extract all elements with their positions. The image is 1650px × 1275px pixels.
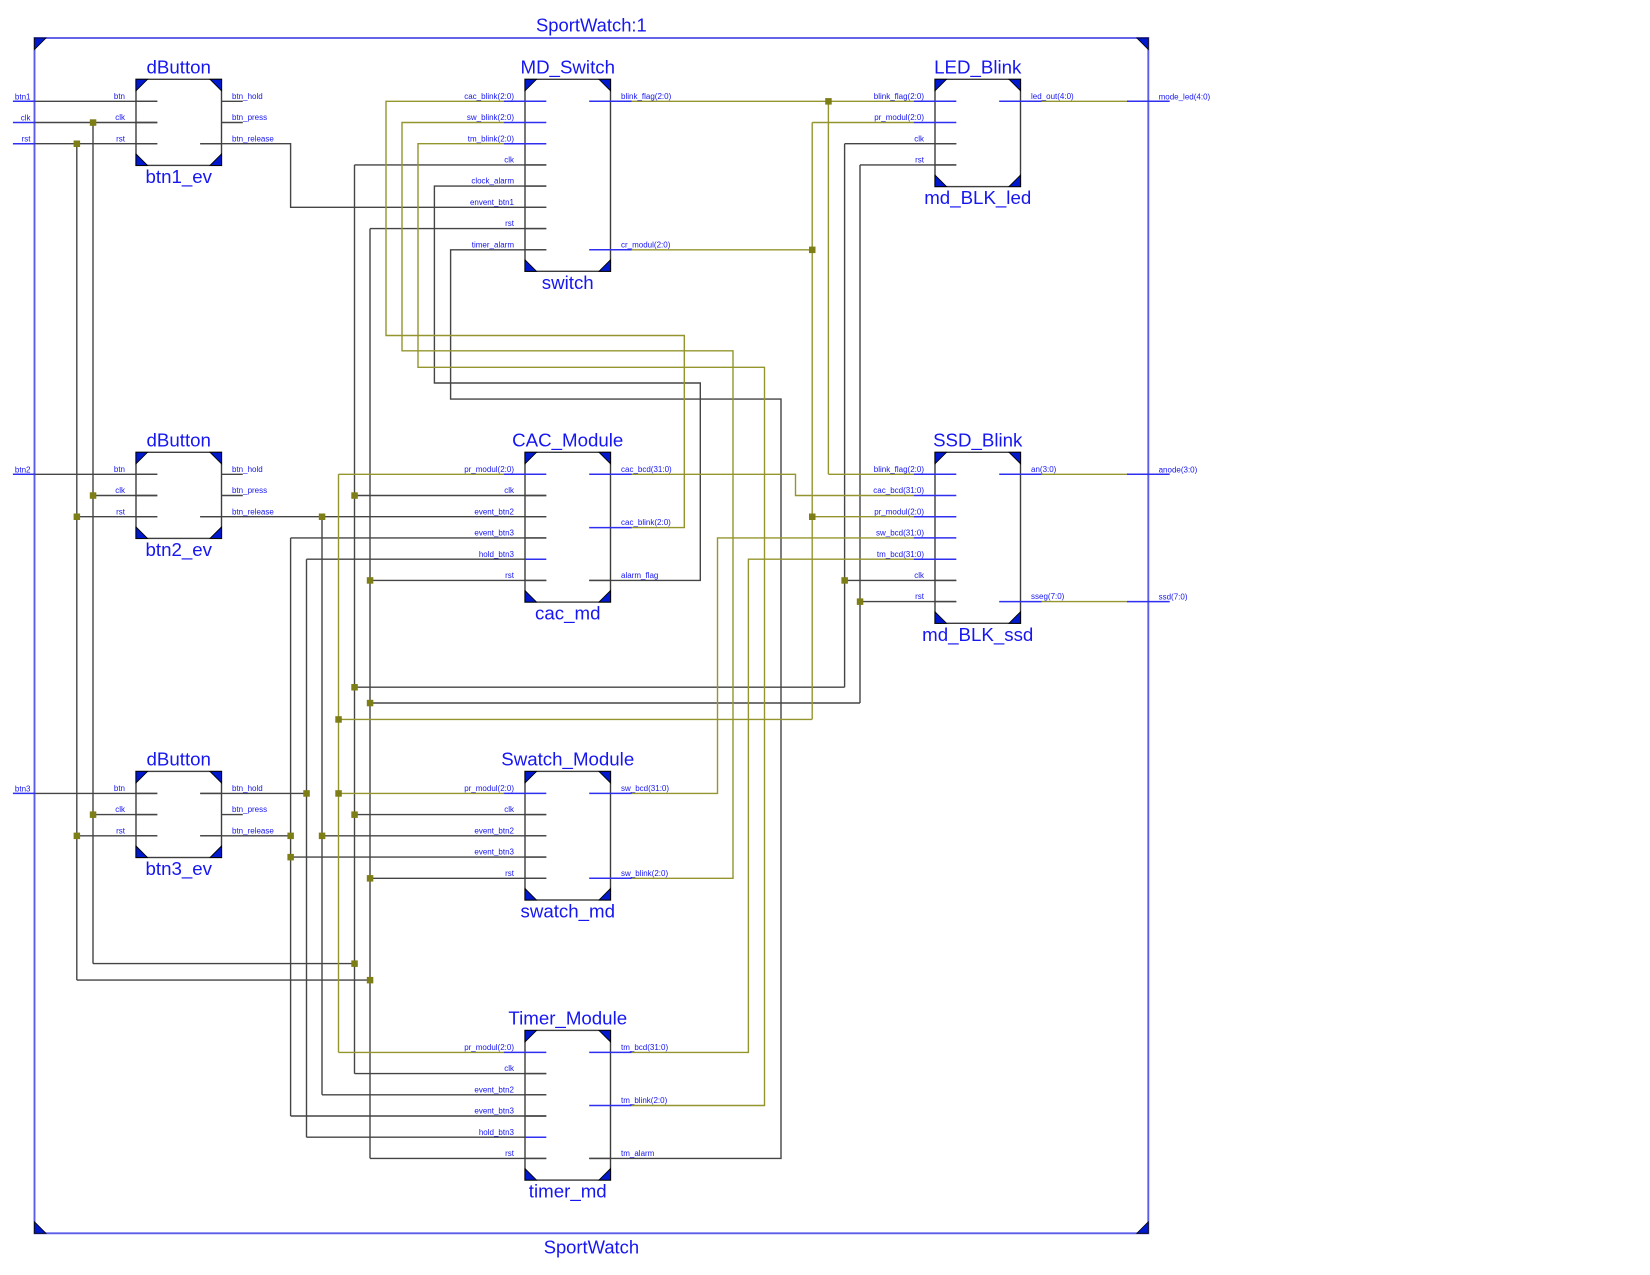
pin led_out(4:0) of md_BLK_led bbox=[999, 92, 1074, 101]
svg-text:Timer_Module: Timer_Module bbox=[508, 1007, 627, 1029]
svg-text:event_btn2: event_btn2 bbox=[474, 507, 514, 516]
svg-text:clk: clk bbox=[504, 1064, 515, 1073]
svg-text:btn_press: btn_press bbox=[232, 486, 267, 495]
wire net led_out(4:0) / mode_led bbox=[1042, 100, 1127, 102]
svg-text:timer_md: timer_md bbox=[529, 1181, 607, 1203]
junction hold_btn3@src bbox=[303, 790, 310, 797]
pin btn_press of btn1_ev bbox=[222, 113, 268, 122]
svg-text:rst: rst bbox=[505, 219, 515, 228]
wire net timer_alarm (timer_md.tm_alarm to switch) bbox=[451, 250, 781, 1159]
pin blink_flag(2:0) of switch bbox=[589, 92, 671, 101]
output port ssd(7:0) bbox=[1127, 593, 1188, 602]
svg-text:clk: clk bbox=[914, 134, 925, 143]
svg-text:envent_btn1: envent_btn1 bbox=[470, 198, 515, 207]
pin cac_bcd(31:0) of cac_md bbox=[589, 465, 672, 474]
svg-text:cac_blink(2:0): cac_blink(2:0) bbox=[464, 92, 514, 101]
svg-text:LED_Blink: LED_Blink bbox=[934, 56, 1022, 78]
junction pr_modul@swatch bbox=[335, 790, 342, 797]
svg-text:tm_alarm: tm_alarm bbox=[621, 1149, 655, 1158]
pin pr_modul(2:0) of timer_md bbox=[464, 1043, 546, 1052]
pin sw_bcd(31:0) of swatch_md bbox=[589, 784, 669, 793]
svg-text:event_btn3: event_btn3 bbox=[474, 848, 514, 857]
junction rst@link bbox=[367, 700, 374, 707]
svg-text:btn3: btn3 bbox=[15, 784, 31, 793]
pin cac_blink(2:0) of switch bbox=[464, 92, 546, 101]
wire net tm_blink(2:0) bbox=[418, 144, 765, 1106]
svg-text:rst: rst bbox=[22, 135, 32, 144]
wire net cac_bcd(31:0) bbox=[632, 474, 914, 495]
pin rst of btn2_ev bbox=[116, 507, 157, 516]
svg-text:sw_blink(2:0): sw_blink(2:0) bbox=[467, 113, 514, 122]
svg-text:dButton: dButton bbox=[147, 56, 211, 77]
pin event_btn2 of swatch_md bbox=[474, 826, 546, 835]
wire net blink_flag(2:0) bbox=[632, 101, 914, 474]
output port mode_led(4:0) bbox=[1127, 92, 1211, 101]
svg-text:cr_modul(2:0): cr_modul(2:0) bbox=[621, 240, 671, 249]
svg-text:hold_btn3: hold_btn3 bbox=[479, 550, 515, 559]
pin btn_hold of btn2_ev bbox=[222, 465, 263, 474]
pin btn of btn2_ev bbox=[114, 465, 157, 474]
junction rst@btn2_ev bbox=[74, 514, 81, 521]
input port clk bbox=[13, 114, 35, 123]
module instance md_BLK_led (LED_Blink) bbox=[924, 56, 1031, 209]
pin rst of btn1_ev bbox=[116, 134, 157, 143]
svg-text:event_btn2: event_btn2 bbox=[474, 1085, 514, 1094]
junction clk@btn2_ev bbox=[90, 492, 97, 499]
svg-text:cac_blink(2:0): cac_blink(2:0) bbox=[621, 518, 671, 527]
junction rst@cac bbox=[367, 577, 374, 584]
pin hold_btn3 of cac_md bbox=[479, 550, 546, 559]
pin event_btn3 of swatch_md bbox=[474, 848, 546, 857]
svg-text:cac_bcd(31:0): cac_bcd(31:0) bbox=[621, 465, 672, 474]
svg-text:rst: rst bbox=[505, 1149, 515, 1158]
pin clk of swatch_md bbox=[504, 805, 546, 814]
svg-text:rst: rst bbox=[116, 826, 126, 835]
svg-text:SportWatch:1: SportWatch:1 bbox=[536, 14, 647, 35]
junction blink_flag@led bbox=[825, 98, 832, 105]
module instance switch (MD_Switch) bbox=[521, 56, 616, 292]
module instance btn1_ev (dButton) bbox=[136, 56, 222, 188]
wire net hold_btn3 (btn3_ev.btn_hold) bbox=[200, 559, 525, 1137]
svg-text:sw_bcd(31:0): sw_bcd(31:0) bbox=[621, 784, 669, 793]
pin clk of btn2_ev bbox=[115, 486, 157, 495]
junction rst@swatch bbox=[367, 875, 374, 882]
svg-text:btn3_ev: btn3_ev bbox=[145, 858, 212, 880]
wire net sw_blink(2:0) bbox=[402, 123, 733, 879]
module instance btn3_ev (dButton) bbox=[136, 748, 222, 880]
pin rst of md_BLK_ssd bbox=[915, 592, 956, 601]
svg-text:btn_release: btn_release bbox=[232, 507, 274, 516]
svg-text:btn: btn bbox=[114, 465, 125, 474]
junction clk@ssd bbox=[841, 577, 848, 584]
pin clk of md_BLK_led bbox=[914, 134, 956, 143]
wire net tm_bcd(31:0) bbox=[632, 559, 914, 1052]
svg-text:event_btn3: event_btn3 bbox=[474, 1107, 514, 1116]
junction rst@ssd bbox=[857, 598, 864, 605]
svg-text:clk: clk bbox=[504, 805, 515, 814]
pin sseg(7:0) of md_BLK_ssd bbox=[999, 592, 1064, 601]
svg-text:rst: rst bbox=[505, 869, 515, 878]
svg-text:Swatch_Module: Swatch_Module bbox=[501, 748, 634, 770]
svg-text:pr_modul(2:0): pr_modul(2:0) bbox=[874, 507, 924, 516]
svg-text:btn2_ev: btn2_ev bbox=[145, 539, 212, 561]
wire net sseg(7:0) / ssd bbox=[1042, 601, 1127, 603]
junction clk@link bbox=[351, 684, 358, 691]
pin clk of timer_md bbox=[504, 1064, 546, 1073]
module instance timer_md (Timer_Module) bbox=[508, 1007, 627, 1202]
svg-text:cac_md: cac_md bbox=[535, 603, 600, 625]
svg-text:sw_bcd(31:0): sw_bcd(31:0) bbox=[876, 529, 924, 538]
pin btn_hold of btn3_ev bbox=[200, 784, 263, 793]
pin sw_blink(2:0) of swatch_md bbox=[589, 869, 668, 878]
pin rst of md_BLK_led bbox=[915, 156, 956, 165]
pin tm_bcd(31:0) of md_BLK_ssd bbox=[877, 550, 956, 559]
pin clk of btn1_ev bbox=[115, 113, 157, 122]
junction event_btn2@cac bbox=[319, 514, 326, 521]
pin cr_modul(2:0) of switch bbox=[589, 240, 670, 249]
svg-text:MD_Switch: MD_Switch bbox=[521, 56, 616, 78]
module instance cac_md (CAC_Module) bbox=[512, 429, 623, 624]
pin btn of btn1_ev bbox=[114, 92, 157, 101]
pin tm_alarm of timer_md bbox=[589, 1149, 654, 1158]
junction event_btn2@swatch bbox=[319, 833, 326, 840]
junction event_btn3@src bbox=[287, 833, 294, 840]
svg-text:rst: rst bbox=[505, 571, 515, 580]
svg-text:blink_flag(2:0): blink_flag(2:0) bbox=[621, 92, 672, 101]
junction clk@portlink bbox=[351, 960, 358, 967]
pin event_btn3 of timer_md bbox=[474, 1107, 546, 1116]
sheet title top bbox=[536, 14, 647, 35]
pin hold_btn3 of timer_md bbox=[479, 1128, 546, 1137]
svg-text:clk: clk bbox=[115, 805, 126, 814]
svg-text:btn_press: btn_press bbox=[232, 805, 267, 814]
svg-text:cac_bcd(31:0): cac_bcd(31:0) bbox=[873, 486, 924, 495]
pin rst of timer_md bbox=[505, 1149, 546, 1158]
svg-text:SportWatch: SportWatch bbox=[544, 1237, 639, 1258]
wire net event_btn2 (btn2_ev.btn_release) bbox=[200, 517, 546, 1095]
pin rst of cac_md bbox=[505, 571, 546, 580]
svg-text:pr_modul(2:0): pr_modul(2:0) bbox=[464, 1043, 514, 1052]
svg-text:btn2: btn2 bbox=[15, 465, 31, 474]
svg-text:tm_blink(2:0): tm_blink(2:0) bbox=[621, 1096, 668, 1105]
pin rst of switch bbox=[505, 219, 546, 228]
pin sw_bcd(31:0) of md_BLK_ssd bbox=[876, 529, 956, 538]
svg-text:btn1: btn1 bbox=[15, 92, 31, 101]
wire net event_btn3 (btn3_ev.btn_release) bbox=[200, 538, 546, 1116]
junction pr_modul@link bbox=[335, 716, 342, 723]
svg-text:clk: clk bbox=[21, 114, 32, 123]
wire net cac_blink(2:0) bbox=[386, 101, 684, 527]
pin event_btn3 of cac_md bbox=[474, 529, 546, 538]
pin blink_flag(2:0) of md_BLK_led bbox=[874, 92, 957, 101]
junction rst@portlink bbox=[367, 977, 374, 984]
pin cac_bcd(31:0) of md_BLK_ssd bbox=[873, 486, 956, 495]
input port btn3 bbox=[13, 784, 35, 793]
junction event_btn3@swatch bbox=[287, 854, 294, 861]
svg-text:led_out(4:0): led_out(4:0) bbox=[1031, 92, 1074, 101]
svg-text:clk: clk bbox=[115, 113, 126, 122]
svg-text:blink_flag(2:0): blink_flag(2:0) bbox=[874, 92, 925, 101]
junction clk@port bbox=[90, 119, 97, 126]
svg-text:rst: rst bbox=[116, 134, 126, 143]
svg-text:btn_release: btn_release bbox=[232, 826, 274, 835]
svg-text:swatch_md: swatch_md bbox=[520, 901, 615, 923]
wire net rst (port rst distribution) bbox=[35, 144, 957, 1159]
module instance swatch_md (Swatch_Module) bbox=[501, 748, 634, 922]
module instance md_BLK_ssd (SSD_Blink) bbox=[922, 429, 1033, 646]
svg-text:btn_press: btn_press bbox=[232, 113, 267, 122]
svg-text:tm_bcd(31:0): tm_bcd(31:0) bbox=[877, 550, 924, 559]
svg-text:CAC_Module: CAC_Module bbox=[512, 429, 623, 451]
svg-text:hold_btn3: hold_btn3 bbox=[479, 1128, 515, 1137]
svg-text:rst: rst bbox=[915, 592, 925, 601]
pin rst of swatch_md bbox=[505, 869, 546, 878]
svg-text:rst: rst bbox=[116, 507, 126, 516]
pin tm_bcd(31:0) of timer_md bbox=[589, 1043, 668, 1052]
junction rst@btn3_ev bbox=[74, 833, 81, 840]
pin btn_press of btn2_ev bbox=[222, 486, 268, 495]
pin tm_blink(2:0) of timer_md bbox=[589, 1096, 667, 1105]
pin event_btn2 of cac_md bbox=[474, 507, 546, 516]
pin pr_modul(2:0) of swatch_md bbox=[464, 784, 546, 793]
pin btn_hold of btn1_ev bbox=[222, 92, 263, 101]
svg-text:timer_alarm: timer_alarm bbox=[472, 240, 515, 249]
pin envent_btn1 of switch bbox=[470, 198, 546, 207]
input port btn1 bbox=[13, 92, 35, 101]
pin pr_modul(2:0) of cac_md bbox=[464, 465, 546, 474]
pin blink_flag(2:0) of md_BLK_ssd bbox=[874, 465, 957, 474]
wire net sw_bcd(31:0) bbox=[632, 538, 914, 794]
svg-text:tm_bcd(31:0): tm_bcd(31:0) bbox=[621, 1043, 668, 1052]
pin btn_press of btn3_ev bbox=[222, 805, 268, 814]
pin pr_modul(2:0) of md_BLK_ssd bbox=[874, 507, 956, 516]
svg-text:btn1_ev: btn1_ev bbox=[145, 166, 212, 188]
svg-text:rst: rst bbox=[915, 156, 925, 165]
svg-text:event_btn3: event_btn3 bbox=[474, 529, 514, 538]
pin btn_release of btn3_ev bbox=[200, 826, 274, 835]
wire net an(3:0) / anode bbox=[1042, 473, 1127, 475]
module instance btn2_ev (dButton) bbox=[136, 429, 222, 561]
svg-text:dButton: dButton bbox=[147, 748, 211, 769]
svg-text:blink_flag(2:0): blink_flag(2:0) bbox=[874, 465, 925, 474]
svg-text:mode_led(4:0): mode_led(4:0) bbox=[1159, 92, 1211, 101]
pin an(3:0) of md_BLK_ssd bbox=[999, 465, 1056, 474]
pin clk of md_BLK_ssd bbox=[914, 571, 956, 580]
wire net cr_modul(2:0) / pr_modul distribution bbox=[339, 123, 914, 1053]
svg-text:event_btn2: event_btn2 bbox=[474, 826, 514, 835]
junction clk@swatch bbox=[351, 811, 358, 818]
pin btn of btn3_ev bbox=[114, 784, 157, 793]
svg-text:clk: clk bbox=[115, 486, 126, 495]
svg-text:btn: btn bbox=[114, 92, 125, 101]
sheet title bottom bbox=[544, 1237, 639, 1258]
svg-text:pr_modul(2:0): pr_modul(2:0) bbox=[874, 113, 924, 122]
svg-text:dButton: dButton bbox=[147, 429, 211, 450]
wire net btn3 bbox=[35, 792, 158, 794]
wire net clock_alarm (cac_md.alarm_flag to switch) bbox=[434, 186, 700, 580]
pin rst of btn3_ev bbox=[116, 826, 157, 835]
junction clk@cac bbox=[351, 492, 358, 499]
svg-text:btn_hold: btn_hold bbox=[232, 92, 263, 101]
input port rst bbox=[13, 135, 35, 144]
pin tm_blink(2:0) of switch bbox=[468, 134, 547, 143]
svg-text:clock_alarm: clock_alarm bbox=[471, 177, 514, 186]
pin clk of btn3_ev bbox=[115, 805, 157, 814]
wire net btn1 bbox=[35, 100, 158, 102]
svg-text:an(3:0): an(3:0) bbox=[1031, 465, 1057, 474]
pin event_btn2 of timer_md bbox=[474, 1085, 546, 1094]
pin clock_alarm of switch bbox=[471, 177, 546, 186]
svg-text:pr_modul(2:0): pr_modul(2:0) bbox=[464, 784, 514, 793]
pin sw_blink(2:0) of switch bbox=[467, 113, 546, 122]
svg-text:btn_hold: btn_hold bbox=[232, 784, 263, 793]
junction clk@btn3_ev bbox=[90, 811, 97, 818]
svg-text:pr_modul(2:0): pr_modul(2:0) bbox=[464, 465, 514, 474]
pin alarm_flag of cac_md bbox=[589, 571, 658, 580]
svg-text:clk: clk bbox=[504, 486, 515, 495]
svg-text:clk: clk bbox=[504, 156, 515, 165]
wire net envent_btn1 (btn1_ev.btn_release to switch) bbox=[200, 144, 546, 208]
svg-text:tm_blink(2:0): tm_blink(2:0) bbox=[468, 134, 515, 143]
svg-text:btn_hold: btn_hold bbox=[232, 465, 263, 474]
svg-text:sseg(7:0): sseg(7:0) bbox=[1031, 592, 1065, 601]
pin cac_blink(2:0) of cac_md bbox=[589, 518, 671, 527]
svg-text:alarm_flag: alarm_flag bbox=[621, 571, 658, 580]
junction pr_modul@ssd bbox=[809, 514, 816, 521]
pin pr_modul(2:0) of md_BLK_led bbox=[874, 113, 956, 122]
svg-text:btn_release: btn_release bbox=[232, 134, 274, 143]
pin clk of cac_md bbox=[504, 486, 546, 495]
svg-text:md_BLK_ssd: md_BLK_ssd bbox=[922, 624, 1033, 646]
svg-text:ssd(7:0): ssd(7:0) bbox=[1159, 593, 1188, 602]
wire net btn2 bbox=[35, 473, 158, 475]
svg-text:SSD_Blink: SSD_Blink bbox=[933, 429, 1023, 451]
junction rst@port bbox=[74, 141, 81, 148]
pin btn_release of btn2_ev bbox=[200, 507, 274, 516]
svg-text:md_BLK_led: md_BLK_led bbox=[924, 187, 1031, 209]
sheet border SportWatch:1 bbox=[35, 38, 1149, 1233]
pin timer_alarm of switch bbox=[472, 240, 547, 249]
svg-text:sw_blink(2:0): sw_blink(2:0) bbox=[621, 869, 668, 878]
pin clk of switch bbox=[504, 156, 546, 165]
pin btn_release of btn1_ev bbox=[200, 134, 274, 143]
wire net clk (port clk distribution) bbox=[35, 123, 957, 1074]
svg-text:clk: clk bbox=[914, 571, 925, 580]
svg-text:btn: btn bbox=[114, 784, 125, 793]
input port btn2 bbox=[13, 465, 35, 474]
junction cr_modul@switch-out bbox=[809, 247, 816, 254]
svg-text:switch: switch bbox=[542, 272, 594, 293]
output port anode(3:0) bbox=[1127, 465, 1198, 474]
svg-text:anode(3:0): anode(3:0) bbox=[1159, 465, 1198, 474]
